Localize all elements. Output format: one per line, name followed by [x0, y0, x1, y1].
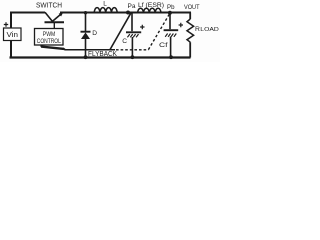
- plus sign of capacitor Cf: [179, 23, 183, 27]
- svg-text:Pb: Pb: [167, 4, 175, 11]
- flyback path dashed diagonal to node Pb: [148, 13, 170, 49]
- svg-text:SWITCH: SWITCH: [36, 1, 62, 10]
- svg-text:Pa: Pa: [128, 3, 136, 10]
- plus sign of capacitor C: [140, 25, 144, 29]
- svg-text:R: R: [195, 26, 200, 33]
- inductor Lf (ESR) coil: [138, 8, 161, 13]
- wire: transistor base to PWM box: [53, 23, 55, 29]
- wire: top rail from switch to output corner: [60, 12, 191, 14]
- wire: output right branch lower lead: [189, 42, 191, 57]
- source box Vin: [4, 28, 22, 41]
- svg-text:L: L: [103, 1, 107, 8]
- capacitor C bottom lead: [131, 37, 133, 57]
- transistor Q1 right (collector) arm: [52, 13, 61, 21]
- capacitor Cf top plate: [164, 29, 179, 31]
- capacitor C top lead: [131, 14, 133, 32]
- diode D top lead: [85, 14, 87, 32]
- node Pb dot: [168, 11, 172, 15]
- wire: Vin box bottom lead: [10, 41, 12, 58]
- inductor L coil: [94, 8, 117, 14]
- svg-text:PWM: PWM: [43, 31, 56, 38]
- svg-text:D: D: [92, 30, 97, 37]
- wire: bottom ground rail: [10, 56, 191, 58]
- node Pa dot: [126, 11, 130, 15]
- svg-text:LOAD: LOAD: [200, 27, 219, 33]
- wire: ground run step-down joint: [63, 48, 65, 49]
- svg-text:CONTROL: CONTROL: [37, 38, 61, 45]
- solid diagonal trace from flyback path to node Pa: [110, 13, 131, 49]
- wire: output right branch upper lead: [189, 13, 191, 20]
- wire: PWM box ground run with step down: [41, 47, 64, 49]
- wire: top rail left segment with corner above Vin: [11, 13, 45, 29]
- node dot capacitor C ground: [131, 55, 135, 59]
- capacitor C top plate: [126, 31, 141, 33]
- diode D cathode bar: [81, 31, 91, 33]
- svg-text:FLYBACK: FLYBACK: [88, 51, 117, 58]
- svg-text:Vin: Vin: [7, 32, 19, 39]
- capacitor Cf bottom lead: [170, 37, 172, 57]
- svg-text:Lf (ESR): Lf (ESR): [138, 2, 164, 9]
- transistor Q1 arrowhead: [59, 12, 64, 16]
- diode D bottom lead: [85, 39, 87, 57]
- node dot capacitor Cf ground: [169, 55, 173, 59]
- svg-text:Cf: Cf: [159, 42, 168, 49]
- svg-text:VOUT: VOUT: [184, 4, 200, 11]
- svg-text:C: C: [122, 38, 127, 45]
- plus sign of Vin: [4, 22, 8, 26]
- diode D triangle: [81, 32, 90, 39]
- wire: PWM box ground stub vertical: [40, 45, 42, 47]
- node dot diode bottom: [84, 55, 88, 59]
- transistor Q1 base bar: [45, 21, 65, 23]
- capacitor Cf hatched bottom plate: [165, 34, 176, 37]
- transistor Q1 left (emitter) arm: [45, 12, 52, 21]
- resistor RLOAD zigzag: [187, 19, 194, 42]
- node dot diode top: [84, 11, 87, 14]
- flyback path dashed horizontal segment: [116, 49, 149, 51]
- flyback path solid line over FLYBACK label: [65, 49, 116, 51]
- PWM CONTROL box: [35, 29, 64, 46]
- capacitor C hatched bottom plate: [127, 34, 138, 37]
- capacitor Cf top lead: [169, 14, 171, 30]
